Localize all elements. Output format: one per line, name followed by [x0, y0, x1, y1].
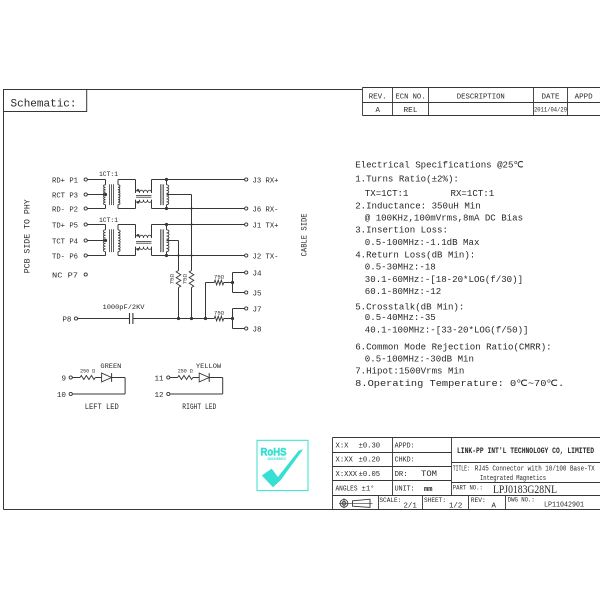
svg-text:PCB SIDE TO PHY: PCB SIDE TO PHY [24, 199, 33, 273]
autotransformer RX winding [166, 180, 168, 185]
capacitor 1000pF/2KV [129, 313, 131, 324]
resistor 250ohm LEFT LED [73, 377, 81, 379]
svg-text:LP11042901: LP11042901 [544, 502, 584, 510]
svg-text:250 Ω: 250 Ω [178, 368, 193, 375]
wire RX P top to transformer [87, 179, 105, 181]
svg-text:LEFT LED: LEFT LED [85, 403, 119, 412]
svg-text:ANGLES: ANGLES [336, 486, 358, 494]
svg-text:1/2: 1/2 [449, 502, 462, 510]
wire TX PCT to center tap [87, 240, 105, 242]
junction TX term to rail [177, 317, 180, 320]
svg-text:REV:: REV: [471, 497, 486, 505]
svg-text:RX=1CT:1: RX=1CT:1 [451, 188, 495, 199]
svg-text:0.5-40MHz:-35: 0.5-40MHz:-35 [365, 312, 436, 323]
svg-text:DESCRIPTION: DESCRIPTION [457, 93, 505, 101]
svg-text:9: 9 [61, 376, 66, 384]
svg-text:1CT:1: 1CT:1 [99, 171, 118, 178]
svg-text:RIGHT LED: RIGHT LED [182, 403, 216, 412]
svg-text:APPD: APPD [575, 93, 594, 101]
crossing dots [190, 207, 192, 209]
svg-text:LINK-PP INT'L TECHNOLOGY CO, L: LINK-PP INT'L TECHNOLOGY CO, LIMITED [457, 446, 594, 456]
junction RX autotransformer bottom [165, 207, 168, 210]
common mode choke RX bottom winding [135, 200, 137, 209]
svg-text:A: A [376, 107, 381, 115]
wire P8 to cap [78, 318, 130, 320]
wire ground rail [133, 318, 214, 320]
wire J7/J8 bracket [232, 309, 234, 329]
RoHS logo [257, 440, 308, 490]
svg-text:±0.30: ±0.30 [359, 442, 381, 450]
svg-text:Integrated Magnetics: Integrated Magnetics [480, 475, 546, 483]
svg-text:RD- P2: RD- P2 [52, 206, 78, 214]
autotransformer TX core [160, 229, 162, 252]
svg-text:GREEN: GREEN [100, 363, 121, 370]
svg-text:6.Common Mode Rejection Ratio(: 6.Common Mode Rejection Ratio(CMRR): [355, 342, 551, 353]
terminal J8 [245, 327, 248, 330]
wire LEFT LED return loop [112, 377, 126, 379]
svg-text:5.Crosstalk(dB Min):: 5.Crosstalk(dB Min): [355, 301, 464, 312]
resistor 250ohm RIGHT LED [170, 377, 178, 379]
wire TX top rail to J [152, 224, 245, 226]
frame border left [3, 90, 5, 510]
resistor 75ohm RX termination [189, 271, 194, 288]
common mode choke TX core [136, 240, 152, 242]
svg-text:8.Operating Temperature: 0℃~70: 8.Operating Temperature: 0℃~70℃. [355, 378, 564, 389]
svg-text:30.1-60MHz:-[18-20*LOG(f/30)]: 30.1-60MHz:-[18-20*LOG(f/30)] [365, 274, 523, 285]
svg-text:0.5-100MHz:-30dB Min: 0.5-100MHz:-30dB Min [365, 353, 474, 364]
terminal J1 [245, 223, 248, 226]
terminal J7 [245, 307, 248, 310]
svg-text:7.Hipot:1500Vrms Min: 7.Hipot:1500Vrms Min [355, 366, 464, 377]
svg-text:RJ45 Connector with 10/100 Bas: RJ45 Connector with 10/100 Base-TX [475, 466, 596, 474]
svg-text:J8: J8 [253, 326, 263, 334]
transformer T-TX primary winding [103, 230, 105, 252]
svg-text:ECN NO.: ECN NO. [396, 93, 426, 101]
frame border bottom [4, 509, 600, 511]
svg-text:@ 100KHz,100mVrms,8mA DC Bias: @ 100KHz,100mVrms,8mA DC Bias [365, 213, 523, 224]
resistor 75ohm J7/J8 [214, 316, 223, 321]
transformer T-RX core [109, 184, 111, 205]
svg-text:75Ω: 75Ω [168, 273, 175, 284]
svg-text:J6 RX-: J6 RX- [253, 206, 279, 214]
svg-text:2/1: 2/1 [404, 502, 418, 510]
junction RX autotransformer top [165, 178, 168, 181]
svg-text:X:XX: X:XX [336, 457, 354, 465]
wire RX top rail to J [152, 179, 245, 181]
terminal J5 [245, 291, 248, 294]
transformer T-TX core [109, 229, 111, 252]
svg-text:REL: REL [404, 107, 418, 115]
svg-text:J3 RX+: J3 RX+ [253, 177, 279, 185]
svg-text:YELLOW: YELLOW [196, 363, 221, 370]
LED YELLOW RIGHT LED [199, 373, 209, 382]
svg-text:TOM: TOM [421, 471, 437, 479]
svg-text:250 Ω: 250 Ω [80, 368, 95, 375]
svg-text:75Ω: 75Ω [214, 273, 224, 280]
wire RX secondary to choke bottom [118, 208, 136, 210]
svg-text:1CT:1: 1CT:1 [99, 217, 118, 224]
wire RX secondary to choke top [118, 179, 136, 181]
svg-text:P8: P8 [62, 316, 72, 324]
title block [333, 437, 600, 439]
svg-text:2011/04/29: 2011/04/29 [534, 106, 567, 113]
svg-text:RCT P3: RCT P3 [52, 192, 78, 200]
svg-text:J7: J7 [253, 306, 262, 314]
wire RX PCT to center tap [87, 194, 105, 196]
wire TX bottom rail to J [152, 255, 245, 257]
schematic title box [4, 90, 87, 112]
wire J4/J5 bracket [232, 273, 234, 293]
revision table [362, 87, 600, 89]
svg-text:SHEET:: SHEET: [424, 497, 446, 505]
bottom row: projection symbol [339, 498, 373, 508]
terminal J6 [245, 207, 248, 210]
svg-text:75Ω: 75Ω [181, 273, 188, 284]
svg-text:2.Inductance: 350uH Min: 2.Inductance: 350uH Min [355, 200, 481, 211]
wire RX bottom rail to J [152, 208, 245, 210]
svg-text:TITLE:: TITLE: [453, 466, 470, 474]
svg-text:40.1-100MHz:-[33-20*LOG(f/50)]: 40.1-100MHz:-[33-20*LOG(f/50)] [365, 324, 529, 335]
svg-text:±1°: ±1° [362, 485, 375, 494]
junction TX autotransformer top [165, 223, 168, 226]
resistor 75ohm J4/J5 [214, 280, 223, 285]
svg-text:0.5-30MHz:-18: 0.5-30MHz:-18 [365, 262, 436, 273]
svg-text:Schematic:: Schematic: [11, 99, 77, 111]
svg-text:1.Turns Ratio(±2%):: 1.Turns Ratio(±2%): [355, 174, 459, 185]
svg-text:APPD:: APPD: [395, 442, 415, 450]
resistor 75ohm TX termination [176, 271, 181, 288]
transformer T-TX secondary winding [118, 230, 120, 252]
svg-text:±0.05: ±0.05 [359, 471, 381, 479]
common mode choke TX bottom winding [135, 247, 137, 256]
svg-text:J1 TX+: J1 TX+ [253, 222, 279, 230]
svg-text:X:X: X:X [336, 442, 350, 450]
wire TX center tap [167, 240, 179, 242]
svg-text:RD+ P1: RD+ P1 [52, 177, 78, 185]
svg-text:±0.20: ±0.20 [359, 457, 381, 465]
transformer T-RX secondary winding [118, 185, 120, 205]
terminal J3 [245, 178, 248, 181]
svg-text:TD+ P5: TD+ P5 [52, 222, 78, 230]
autotransformer RX core [160, 184, 162, 205]
svg-text:DR:: DR: [395, 471, 408, 479]
svg-text:CABLE SIDE: CABLE SIDE [301, 213, 310, 256]
wire TX P bottom [87, 255, 105, 257]
transformer T-RX primary winding [104, 185, 106, 205]
svg-text:J4: J4 [253, 270, 263, 278]
junction RX term to rail [190, 317, 193, 320]
wire TX secondary to choke top [118, 224, 136, 226]
svg-text:2002/95/EC: 2002/95/EC [267, 457, 286, 461]
wire TX P top to transformer [87, 224, 105, 226]
svg-text:10: 10 [57, 392, 67, 400]
svg-text:J2 TX-: J2 TX- [253, 253, 279, 261]
svg-text:TD- P6: TD- P6 [52, 253, 78, 261]
svg-text:mm: mm [424, 486, 432, 494]
wire TX secondary to choke bottom [118, 255, 136, 257]
junction TX autotransformer bottom [165, 254, 168, 257]
svg-text:60.1-80MHz:-12: 60.1-80MHz:-12 [365, 286, 441, 297]
svg-text:DATE: DATE [542, 93, 560, 101]
svg-text:75Ω: 75Ω [214, 309, 224, 316]
common mode choke TX top winding [135, 225, 137, 238]
svg-text:X:XXX: X:XXX [336, 471, 358, 479]
common mode choke RX top winding [135, 180, 137, 193]
svg-text:TCT P4: TCT P4 [52, 238, 78, 246]
autotransformer TX winding [166, 225, 168, 230]
common mode choke RX core [136, 194, 152, 196]
terminal J2 [245, 254, 248, 257]
svg-text:0.5-100MHz:-1.1dB Max: 0.5-100MHz:-1.1dB Max [365, 237, 480, 248]
svg-text:UNIT:: UNIT: [395, 486, 415, 494]
svg-text:11: 11 [154, 376, 164, 384]
LED GREEN LEFT LED [102, 373, 112, 382]
frame border top [4, 89, 363, 91]
svg-text:A: A [492, 502, 497, 510]
svg-text:NC P7: NC P7 [52, 272, 78, 280]
svg-text:PART NO.:: PART NO.: [453, 484, 483, 491]
svg-text:LPJ0183G28NL: LPJ0183G28NL [493, 484, 557, 496]
svg-text:Electrical Specifications @25℃: Electrical Specifications @25℃ [355, 159, 523, 170]
terminal J4 [245, 271, 248, 274]
svg-text:3.Insertion Loss:: 3.Insertion Loss: [355, 225, 448, 236]
svg-text:4.Return Loss(dB Min):: 4.Return Loss(dB Min): [355, 249, 475, 260]
svg-text:REV.: REV. [369, 93, 387, 101]
wire RIGHT LED return loop [209, 377, 223, 379]
svg-text:SCALE:: SCALE: [379, 497, 401, 505]
wire riser to J4J5 resistor [205, 283, 207, 319]
svg-text:J5: J5 [253, 290, 263, 298]
wire RX center tap [167, 194, 192, 196]
svg-text:TX=1CT:1: TX=1CT:1 [365, 188, 409, 199]
svg-text:12: 12 [154, 392, 164, 400]
svg-text:DWG NO.:: DWG NO.: [508, 496, 535, 503]
wire RX P bottom [87, 208, 105, 210]
svg-text:1000pF/2KV: 1000pF/2KV [103, 304, 145, 311]
svg-text:CHKD:: CHKD: [395, 457, 415, 465]
